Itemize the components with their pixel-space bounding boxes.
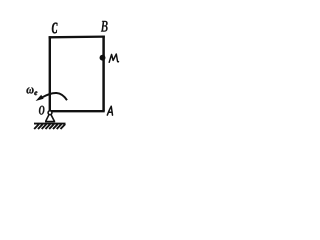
label C (52, 23, 57, 34)
ground hatching (34, 124, 65, 129)
pivot triangle support (45, 114, 55, 121)
label omega (27, 87, 34, 93)
label B (101, 21, 108, 32)
frame top edge CB (49, 35, 105, 38)
pivot pin circle at O (48, 111, 52, 115)
rotation arc omega_e (42, 93, 67, 100)
point M dot (100, 55, 106, 61)
frame right edge BA (102, 36, 105, 112)
label M (109, 54, 118, 62)
ground line (34, 123, 66, 125)
frame bottom edge OA (51, 110, 105, 112)
label O (39, 106, 44, 115)
rotation arrowhead (36, 95, 44, 101)
frame left edge OC (49, 36, 51, 111)
label omega subscript e (34, 91, 37, 95)
label A (107, 106, 112, 115)
